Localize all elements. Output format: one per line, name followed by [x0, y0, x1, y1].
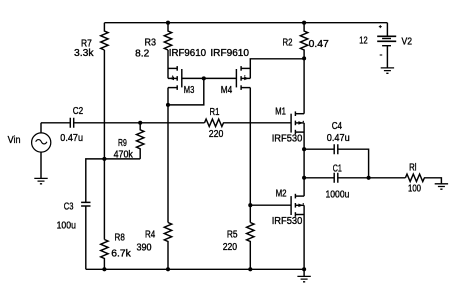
svg-text:100u: 100u	[57, 220, 76, 231]
svg-text:220: 220	[209, 129, 224, 140]
wire M2 source to bottom rail	[303, 205, 305, 269]
wire M4 drain node to M2 gate	[250, 204, 291, 206]
source Vin sine	[36, 140, 47, 144]
wire R7 bottom to bias node to R8	[103, 50, 105, 240]
svg-text:IRF530: IRF530	[272, 216, 303, 227]
resistor R1	[205, 119, 224, 126]
capacitor C2	[70, 118, 73, 128]
junction node bias R7 R8	[102, 157, 106, 161]
resistor R2	[300, 23, 307, 59]
junction node rail R8	[102, 267, 106, 271]
battery V2 plates	[377, 36, 396, 45]
resistor R8	[101, 240, 108, 270]
svg-text:R9: R9	[118, 138, 127, 149]
svg-text:R8: R8	[115, 233, 126, 244]
capacitor C4	[334, 144, 338, 154]
capacitor C1	[334, 173, 338, 183]
resistor R9	[137, 123, 144, 159]
svg-text:0.47: 0.47	[309, 39, 330, 50]
resistor R3	[164, 23, 171, 50]
junction node output C1	[302, 176, 306, 180]
wire Rl to ground	[424, 178, 441, 184]
svg-text:M4: M4	[221, 85, 233, 96]
junction node R9 top	[138, 121, 142, 125]
svg-text:3.3k: 3.3k	[74, 48, 95, 59]
wire M3 drain to gate link	[168, 78, 204, 105]
svg-text:470k: 470k	[114, 150, 134, 161]
svg-text:Vin: Vin	[8, 135, 21, 146]
wire M4 source up and over to R2 node	[250, 59, 304, 79]
junction node M2 gate R5	[248, 203, 252, 207]
svg-text:C1: C1	[333, 163, 342, 174]
svg-text:R5: R5	[227, 229, 238, 240]
source Vin circle	[32, 133, 51, 152]
wire M3 drain down to node	[167, 88, 169, 105]
svg-text:M3: M3	[184, 85, 195, 96]
wire M3 gate to M4 gate	[182, 77, 237, 79]
resistor R7	[101, 23, 108, 50]
battery V2 minus mark	[380, 54, 383, 56]
ground below V2	[381, 68, 394, 73]
svg-text:M2: M2	[276, 188, 287, 199]
svg-text:8.2: 8.2	[135, 48, 149, 59]
svg-text:R2: R2	[283, 38, 293, 49]
wire C1 to Rl	[338, 177, 405, 179]
svg-text:1000u: 1000u	[326, 189, 350, 200]
svg-text:R1: R1	[210, 107, 220, 118]
resistor R4	[164, 223, 171, 270]
wire R5 node to R5	[249, 205, 251, 222]
wire R9 bottom to C3	[86, 159, 140, 202]
wire output node to C4	[304, 148, 334, 150]
junction node R2 top	[302, 21, 306, 25]
junction node M3 gate link	[202, 76, 206, 80]
svg-text:390: 390	[137, 242, 152, 253]
junction node M3 drain	[166, 103, 170, 107]
svg-text:Rl: Rl	[409, 162, 416, 173]
svg-text:IRF9610: IRF9610	[210, 48, 249, 59]
svg-text:R3: R3	[145, 38, 157, 49]
svg-text:220: 220	[223, 242, 238, 253]
wire output node to C1	[304, 177, 334, 179]
resistor R5	[247, 223, 254, 270]
battery V2 wires	[386, 23, 388, 68]
svg-text:0.47u: 0.47u	[60, 133, 83, 144]
svg-text:IRF9610: IRF9610	[169, 48, 207, 59]
svg-text:IRF530: IRF530	[272, 134, 303, 145]
wire node to R4	[167, 105, 169, 223]
transistor M3 body IRF9610	[168, 66, 182, 90]
svg-text:C3: C3	[64, 202, 74, 213]
wire R3 bottom to M3 source	[167, 50, 169, 78]
wire C3 to bottom rail	[85, 206, 87, 269]
junction node R3 top	[166, 21, 170, 25]
junction node rail R5	[248, 267, 252, 271]
resistor Rl	[405, 174, 424, 181]
wire M4 drain down to R5 node	[249, 88, 251, 206]
ground at bottom rail	[297, 276, 310, 281]
svg-text:100: 100	[408, 183, 421, 194]
svg-text:12: 12	[359, 35, 368, 46]
svg-text:0.47u: 0.47u	[327, 133, 350, 144]
junction node C4 C1 right	[367, 176, 371, 180]
junction node R2 bottom	[302, 56, 306, 60]
svg-text:6.7k: 6.7k	[111, 248, 132, 259]
wire C4 to C1 right node	[338, 149, 369, 178]
wire R2 node down to M1 drain	[303, 58, 305, 113]
junction node rail M2	[302, 267, 306, 271]
source Vin wires	[40, 123, 42, 179]
svg-text:M1: M1	[275, 106, 286, 117]
svg-text:C4: C4	[332, 121, 343, 132]
svg-text:R4: R4	[145, 230, 156, 241]
wire bottom ground rail	[86, 268, 304, 270]
battery V2 plus mark	[379, 25, 382, 28]
wire M1 source to output node to M2 drain	[303, 123, 305, 196]
junction node rail R4	[166, 267, 170, 271]
wire R1 to M1 gate	[223, 122, 291, 124]
junction node output C4	[302, 147, 306, 151]
ground below Vin	[34, 178, 47, 183]
transistor M4 body IRF9610	[236, 66, 250, 90]
transistor M2 body IRF530	[291, 194, 304, 217]
wire C2 to R1 signal line	[74, 122, 204, 124]
capacitor C3	[81, 202, 90, 206]
transistor M1 body IRF530	[291, 111, 304, 134]
svg-text:V2: V2	[402, 36, 413, 47]
svg-text:C2: C2	[73, 106, 84, 117]
wire Vin to C2	[41, 122, 70, 124]
wire top supply rail	[104, 22, 387, 24]
ground right of Rl	[435, 184, 448, 189]
